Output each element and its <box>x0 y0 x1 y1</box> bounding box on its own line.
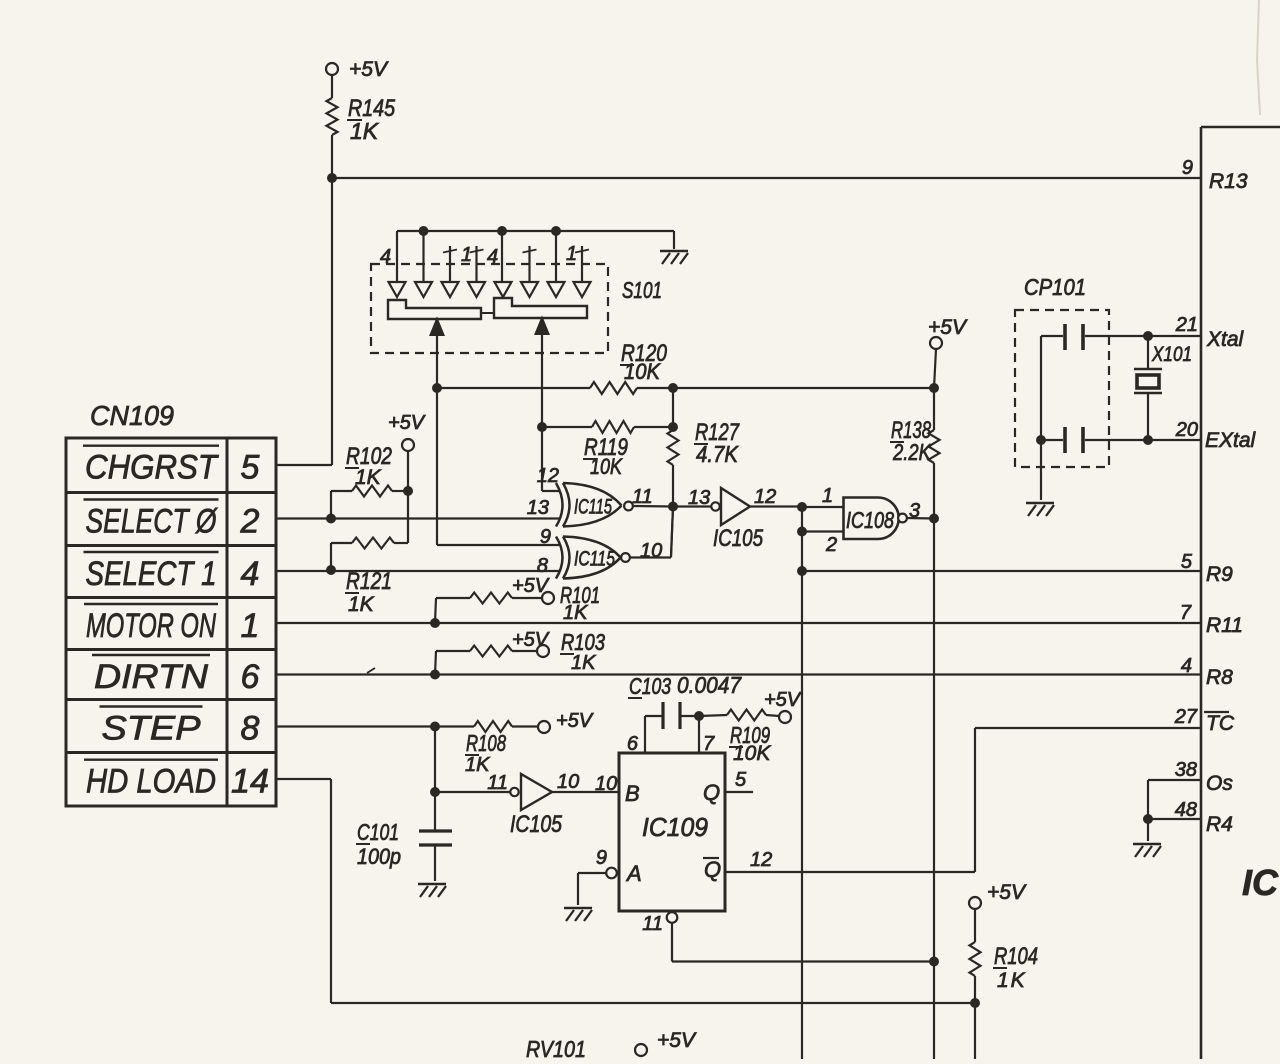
svg-text:1: 1 <box>566 243 577 265</box>
svg-text:9: 9 <box>1182 157 1193 179</box>
svg-text:R108: R108 <box>466 730 506 756</box>
svg-text:1: 1 <box>822 485 833 507</box>
svg-text:SELECT Ø: SELECT Ø <box>86 503 219 541</box>
svg-text:11: 11 <box>487 772 508 794</box>
svg-text:5: 5 <box>241 449 260 487</box>
svg-text:10K: 10K <box>624 359 661 384</box>
svg-text:IC109: IC109 <box>642 812 708 842</box>
svg-text:5: 5 <box>1181 551 1193 573</box>
svg-text:7: 7 <box>1180 602 1192 624</box>
svg-text:6: 6 <box>241 658 260 696</box>
svg-text:100p: 100p <box>357 844 401 869</box>
svg-text:27: 27 <box>1174 706 1198 728</box>
svg-text:C101: C101 <box>357 819 399 845</box>
svg-text:R8: R8 <box>1206 666 1233 689</box>
svg-text:4: 4 <box>1181 655 1192 677</box>
svg-text:1K: 1K <box>571 652 597 674</box>
svg-text:48: 48 <box>1175 799 1197 821</box>
svg-text:R104: R104 <box>994 943 1038 970</box>
svg-text:+5V: +5V <box>928 316 968 339</box>
svg-text:2: 2 <box>240 503 260 541</box>
svg-text:4: 4 <box>487 246 498 268</box>
svg-text:+5V: +5V <box>512 575 550 597</box>
svg-text:4.7K: 4.7K <box>696 441 739 467</box>
svg-text:20: 20 <box>1175 419 1198 441</box>
svg-text:4: 4 <box>380 246 391 268</box>
svg-text:8: 8 <box>241 710 260 748</box>
svg-text:12: 12 <box>754 486 776 508</box>
svg-text:10K: 10K <box>733 742 771 765</box>
svg-text:X101: X101 <box>1151 343 1192 366</box>
svg-text:7: 7 <box>703 733 715 755</box>
svg-text:13: 13 <box>688 487 710 509</box>
svg-text:11: 11 <box>632 486 653 508</box>
svg-text:EXtal: EXtal <box>1205 429 1257 452</box>
svg-text:+5V: +5V <box>764 689 802 711</box>
svg-text:A: A <box>625 861 642 886</box>
svg-text:R13: R13 <box>1209 170 1248 193</box>
svg-text:SELECT 1: SELECT 1 <box>86 555 217 593</box>
svg-text:10K: 10K <box>590 454 623 479</box>
svg-text:12: 12 <box>750 849 772 871</box>
svg-text:0.0047: 0.0047 <box>677 672 742 698</box>
svg-text:R4: R4 <box>1206 813 1233 836</box>
svg-text:Xtal: Xtal <box>1206 328 1245 351</box>
svg-text:1K: 1K <box>348 593 375 616</box>
svg-text:IC115: IC115 <box>574 548 615 571</box>
svg-text:2: 2 <box>825 534 837 556</box>
svg-text:STEP: STEP <box>102 710 201 748</box>
svg-text:HD LOAD: HD LOAD <box>86 763 216 801</box>
svg-text:R9: R9 <box>1206 563 1233 586</box>
svg-text:Os: Os <box>1206 772 1233 795</box>
svg-text:38: 38 <box>1175 759 1197 781</box>
svg-text:1K: 1K <box>350 118 380 144</box>
svg-text:10: 10 <box>640 540 662 562</box>
svg-text:+5V: +5V <box>657 1029 697 1052</box>
svg-text:1: 1 <box>241 607 260 645</box>
svg-text:Q: Q <box>703 780 720 805</box>
svg-text:1K: 1K <box>355 466 382 489</box>
svg-text:IC105: IC105 <box>713 525 764 552</box>
svg-text:+5V: +5V <box>512 629 550 651</box>
svg-text:IC115: IC115 <box>574 496 612 519</box>
svg-text:B: B <box>625 781 640 806</box>
svg-text:MOTOR ON: MOTOR ON <box>86 607 216 645</box>
svg-text:DIRTN: DIRTN <box>94 658 208 696</box>
svg-text:+5V: +5V <box>987 881 1027 904</box>
svg-text:CP101: CP101 <box>1024 274 1086 300</box>
svg-text:12: 12 <box>537 465 559 487</box>
svg-text:CHGRST: CHGRST <box>85 449 219 487</box>
svg-text:Q: Q <box>704 857 721 882</box>
svg-text:1K: 1K <box>997 969 1027 992</box>
svg-text:IC108: IC108 <box>846 507 894 533</box>
svg-text:IC: IC <box>1242 862 1279 903</box>
svg-text:+5V: +5V <box>556 710 594 732</box>
svg-text:C103: C103 <box>629 673 671 699</box>
svg-text:+5V: +5V <box>388 412 426 434</box>
svg-text:10: 10 <box>557 771 579 793</box>
svg-text:5: 5 <box>735 769 747 791</box>
svg-text:9: 9 <box>596 847 607 869</box>
svg-text:TC: TC <box>1206 712 1235 735</box>
svg-text:S101: S101 <box>622 277 662 303</box>
svg-text:21: 21 <box>1175 314 1198 336</box>
svg-text:4: 4 <box>241 555 260 593</box>
svg-text:6: 6 <box>627 733 639 755</box>
svg-text:RV101: RV101 <box>526 1036 586 1059</box>
svg-text:CN109: CN109 <box>90 400 174 431</box>
svg-text:1K: 1K <box>563 602 589 624</box>
svg-text:14: 14 <box>231 763 269 801</box>
svg-text:8: 8 <box>537 555 548 577</box>
svg-text:1: 1 <box>461 244 472 266</box>
svg-text:11: 11 <box>642 913 663 935</box>
svg-text:IC105: IC105 <box>510 811 563 838</box>
svg-text:13: 13 <box>527 497 549 519</box>
svg-text:+5V: +5V <box>349 58 389 81</box>
svg-text:R11: R11 <box>1206 614 1243 637</box>
svg-text:2.2K: 2.2K <box>892 439 932 465</box>
